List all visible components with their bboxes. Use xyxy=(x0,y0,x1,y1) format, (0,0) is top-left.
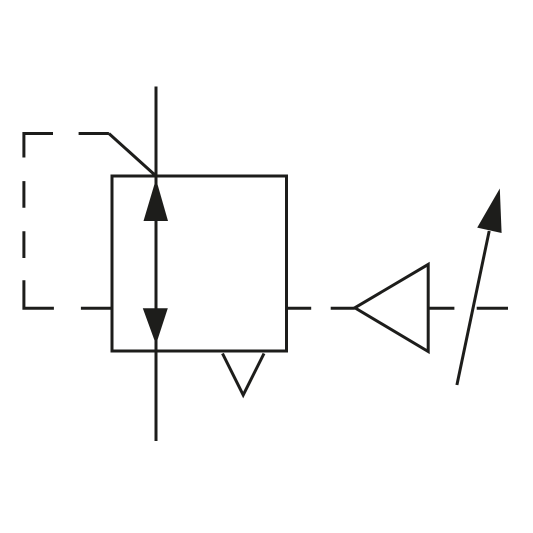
wire: output segment from valve right port xyxy=(287,307,312,310)
wire: main vertical flow line through valve xyxy=(155,87,158,442)
exhaust triangle (open, below valve) xyxy=(223,354,265,396)
pilot line (dashed), top horizontal run xyxy=(24,134,109,158)
wire: segment to check-valve apex xyxy=(331,307,355,310)
arrowhead down (flow arrow inside valve, bottom) xyxy=(143,308,168,344)
wire: segment after triangle base xyxy=(428,307,454,310)
adjustment arrowhead (filled) xyxy=(477,189,501,234)
arrowhead up (flow arrow inside valve, top) xyxy=(144,179,169,221)
pilot line (dashed), left vertical run xyxy=(22,181,25,258)
pilot line, solid diagonal into valve top port xyxy=(109,134,156,177)
check valve / flow triangle (open, pointing left) xyxy=(355,264,428,351)
wire: rightmost output segment xyxy=(477,307,508,310)
pilot line (dashed), bottom corner and horizontal run to valve xyxy=(24,280,112,308)
valve body (square) xyxy=(112,176,287,351)
adjustment arrow shaft (diagonal) xyxy=(457,231,489,385)
